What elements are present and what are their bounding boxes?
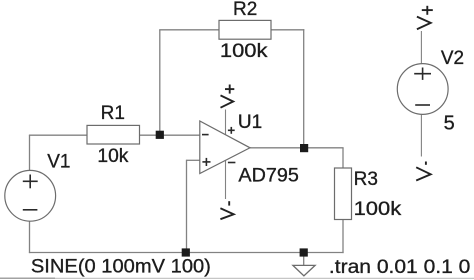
wire op-amp output bbox=[250, 147, 344, 149]
V1 minus mark bbox=[23, 209, 38, 211]
wire R3 bottom vertical bbox=[342, 219, 344, 253]
wire op-amp V- supply pin bbox=[225, 161, 227, 200]
svg-text:.tran 0.01 0.1 0: .tran 0.01 0.1 0 bbox=[329, 257, 471, 278]
svg-text:AD795: AD795 bbox=[238, 165, 299, 186]
V2 minus mark bbox=[415, 104, 430, 106]
net flag V+ above op-amp bbox=[221, 85, 235, 108]
svg-text:V2: V2 bbox=[441, 48, 464, 69]
net flag V- below V2 bbox=[416, 162, 431, 181]
ground bbox=[293, 265, 315, 275]
op-amp V+ pin label + bbox=[228, 127, 235, 134]
wire op-amp non-inverting input vertical to rail bbox=[186, 160, 188, 253]
junction node R1/R2/op-amp input bbox=[156, 131, 164, 139]
op-amp non-inverting input label + bbox=[202, 158, 210, 166]
svg-text:R3: R3 bbox=[354, 169, 378, 190]
svg-text:SINE(0 100mV 100): SINE(0 100mV 100) bbox=[31, 257, 211, 278]
wire R2 to right corner bbox=[271, 29, 305, 31]
svg-text:5: 5 bbox=[444, 112, 455, 134]
svg-text:U1: U1 bbox=[238, 112, 262, 133]
wire op-amp V+ supply pin bbox=[225, 110, 227, 136]
wire V1 top vertical bbox=[29, 135, 31, 170]
resistor R3 bbox=[335, 168, 352, 220]
V2 plus mark bbox=[414, 68, 431, 80]
svg-text:R2: R2 bbox=[233, 0, 257, 20]
junction output node bbox=[300, 144, 308, 152]
V1 plus mark bbox=[23, 175, 38, 189]
resistor R2 bbox=[219, 20, 271, 39]
bottom edge artifact line bbox=[0, 277, 474, 279]
wire node A vertical to R2 left bbox=[159, 30, 161, 135]
voltage source V1 bbox=[5, 170, 56, 221]
net flag V+ above V2 bbox=[417, 6, 433, 29]
wire top left to R2 bbox=[159, 29, 219, 31]
op-amp V- pin label - bbox=[228, 162, 236, 164]
op-amp inverting input label - bbox=[202, 134, 209, 136]
wire R1 to op-amp inverting input bbox=[140, 134, 201, 136]
wire V1 bottom vertical bbox=[29, 222, 31, 254]
wire V2 bottom bbox=[420, 115, 422, 157]
junction non-inverting input on rail bbox=[182, 248, 190, 256]
voltage source V2 bbox=[397, 64, 448, 115]
op-amp U1 triangle bbox=[200, 121, 250, 174]
junction ground node bbox=[300, 248, 308, 256]
wire ground stem bbox=[303, 253, 305, 266]
net flag V- below op-amp bbox=[220, 201, 233, 219]
resistor R1 bbox=[87, 125, 140, 144]
wire bottom rail bbox=[29, 252, 344, 254]
wire R2 right vertical to output node bbox=[303, 29, 305, 148]
wire R3 top vertical bbox=[342, 148, 344, 169]
wire op-amp non-inverting input horizontal bbox=[187, 159, 201, 161]
svg-text:100k: 100k bbox=[354, 199, 402, 220]
wire V2 top bbox=[420, 31, 422, 64]
svg-text:R1: R1 bbox=[101, 103, 125, 124]
svg-text:100k: 100k bbox=[220, 41, 268, 62]
svg-text:10k: 10k bbox=[97, 146, 128, 167]
wire V1 to R1 bbox=[29, 134, 88, 136]
svg-text:V1: V1 bbox=[47, 151, 70, 172]
